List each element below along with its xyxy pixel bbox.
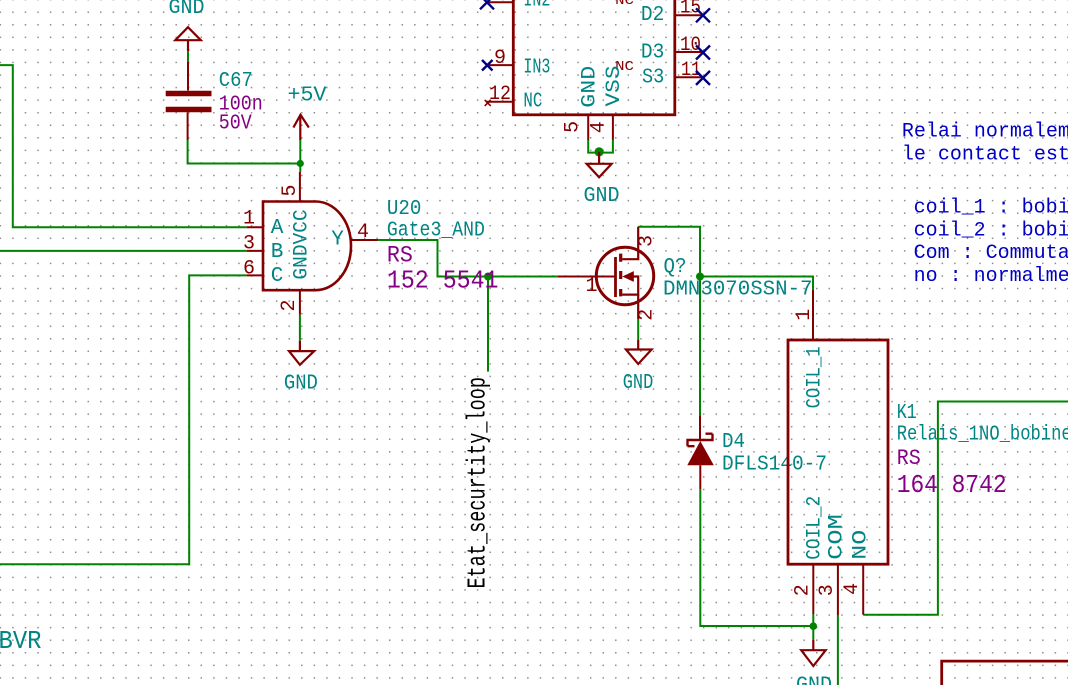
wire label stub xyxy=(487,277,489,372)
pin 4 of U20 output xyxy=(351,239,378,241)
pin 11 of IC xyxy=(675,76,703,78)
wire mosfet drain net xyxy=(638,227,700,416)
svg-text:1: 1 xyxy=(243,208,255,231)
svg-text:U20: U20 xyxy=(387,197,422,221)
svg-text:1: 1 xyxy=(586,275,598,298)
wire C67 to +5V junction xyxy=(188,140,301,164)
svg-text:2: 2 xyxy=(792,584,815,596)
svg-text:4: 4 xyxy=(841,583,864,595)
IC U? box xyxy=(513,0,675,115)
junction node relay pin2 xyxy=(810,622,818,630)
wire +5V to gate pin5 xyxy=(299,140,301,172)
svg-text:Gate3_AND: Gate3_AND xyxy=(387,219,485,243)
svg-text:4: 4 xyxy=(357,221,369,244)
svg-text:C: C xyxy=(271,265,284,288)
svg-text:A: A xyxy=(271,217,284,240)
svg-text:D2: D2 xyxy=(641,3,664,27)
svg-text:50V: 50V xyxy=(219,113,252,136)
wire mosfet source to gnd xyxy=(637,319,639,340)
svg-text:VSS: VSS xyxy=(603,66,626,107)
junction node label stub xyxy=(484,273,492,281)
svg-text:NO: NO xyxy=(850,530,873,560)
svg-text:164 8742: 164 8742 xyxy=(897,470,1007,500)
svg-text:Etat_securtity_loop: Etat_securtity_loop xyxy=(463,377,493,589)
svg-text:+5V: +5V xyxy=(288,85,327,108)
svg-text:S3: S3 xyxy=(642,65,664,89)
svg-text:9: 9 xyxy=(494,47,506,70)
pin 2 of U20 xyxy=(299,290,301,315)
no-connect X pin9 xyxy=(482,60,493,71)
svg-text:Com : Commutateur: Com : Commutateur xyxy=(914,242,1068,265)
op-amp U20 AND gate body xyxy=(263,202,351,291)
svg-text:coil_1 : bobine: coil_1 : bobine xyxy=(914,197,1068,220)
svg-text:4: 4 xyxy=(588,121,611,133)
junction node drain/coil xyxy=(696,273,704,281)
pin 1 of K1 xyxy=(812,290,814,340)
svg-text:1: 1 xyxy=(793,309,816,321)
no-connect x pin12 xyxy=(485,100,491,106)
svg-text:2: 2 xyxy=(278,299,301,311)
wire gnd to C67 xyxy=(187,51,189,62)
pin 4 of IC bottom xyxy=(612,115,614,140)
svg-text:Y: Y xyxy=(331,228,344,251)
diode D4 triangle xyxy=(687,441,714,465)
svg-text:coil_2 : bobine: coil_2 : bobine xyxy=(914,220,1068,243)
svg-text:B: B xyxy=(271,241,284,264)
capacitor C67 xyxy=(166,62,212,140)
ground symbol under IC xyxy=(587,152,612,177)
svg-text:BVR: BVR xyxy=(0,626,42,656)
svg-text:GND: GND xyxy=(623,372,654,395)
svg-text:D3: D3 xyxy=(641,40,664,64)
svg-text:12: 12 xyxy=(489,83,511,106)
svg-text:NC: NC xyxy=(523,90,542,114)
box bottom right xyxy=(942,661,1068,685)
junction node C67/+5V xyxy=(297,160,304,167)
svg-text:GND: GND xyxy=(169,0,205,20)
pin 1 of U20 xyxy=(247,226,263,228)
no-connect X IN2 xyxy=(480,0,494,9)
svg-text:3: 3 xyxy=(636,235,659,247)
wire gate pin2 to gnd xyxy=(299,315,301,341)
wire pin3 net left xyxy=(0,250,247,252)
wire D4 bottom to relay pin2 xyxy=(700,489,813,626)
wire pin6 net left xyxy=(0,275,247,564)
diode D4 xyxy=(688,415,713,489)
svg-text:3: 3 xyxy=(816,584,839,596)
svg-text:NC: NC xyxy=(615,0,634,9)
svg-text:GNDVCC: GNDVCC xyxy=(291,209,314,279)
no-connect X pin11 xyxy=(696,71,710,85)
pin 3 of K1 xyxy=(837,564,839,615)
svg-text:5: 5 xyxy=(279,184,302,196)
wire relay pin4 net right xyxy=(863,402,1068,615)
svg-text:6: 6 xyxy=(243,258,255,281)
wire relay pin2 to gnd xyxy=(812,614,814,640)
pin 3 of U20 xyxy=(247,250,263,252)
no-connect X pin15 xyxy=(696,8,710,22)
transistor Q? mosfet xyxy=(558,227,654,319)
svg-text:DFLS140-7: DFLS140-7 xyxy=(722,453,827,476)
pin 5 of U20 xyxy=(299,172,301,202)
svg-text:le contact est ferme qua: le contact est ferme qua xyxy=(902,144,1068,167)
svg-text:DMN3070SSN-7: DMN3070SSN-7 xyxy=(663,279,813,302)
svg-text:GND: GND xyxy=(584,185,620,208)
pin 5 of IC bottom xyxy=(587,115,589,140)
svg-text:GND: GND xyxy=(579,66,602,108)
ground symbol under Q? xyxy=(626,340,652,364)
svg-text:3: 3 xyxy=(243,233,255,256)
svg-text:IN3: IN3 xyxy=(523,56,550,80)
svg-text:10: 10 xyxy=(680,34,701,57)
arrow inside Q? xyxy=(622,271,634,282)
wire pin1 net left xyxy=(0,65,247,227)
svg-text:COM: COM xyxy=(826,514,849,560)
power symbol +5V xyxy=(293,115,308,140)
svg-text:Q?: Q? xyxy=(664,256,687,279)
pin 2 of K1 xyxy=(812,564,814,614)
ground symbol under U20 xyxy=(289,341,314,365)
svg-text:2: 2 xyxy=(636,309,659,321)
pin 9 of IC xyxy=(486,64,513,66)
pin 12 of IC xyxy=(486,101,513,103)
svg-text:COIL_1: COIL_1 xyxy=(803,346,826,408)
wire coil feed xyxy=(700,277,813,290)
svg-text:IN2: IN2 xyxy=(523,0,550,13)
pin IN2 of IC xyxy=(486,1,513,3)
svg-text:D4: D4 xyxy=(722,431,745,454)
svg-text:no : normalment ouvert: no : normalment ouvert xyxy=(914,265,1068,288)
svg-text:Relai normalement ouvert: Relai normalement ouvert xyxy=(902,121,1068,144)
wire gate output net xyxy=(378,240,559,277)
svg-text:C67: C67 xyxy=(219,70,253,93)
no-connect X pin10 xyxy=(696,46,710,60)
svg-text:RS: RS xyxy=(897,446,921,471)
wire relay pin3 down xyxy=(837,616,839,685)
svg-text:Relais_1NO_bobine: Relais_1NO_bobine xyxy=(897,423,1068,447)
svg-text:K1: K1 xyxy=(897,401,917,425)
svg-text:GND: GND xyxy=(796,675,832,685)
pin 10 of IC xyxy=(675,51,703,53)
ground symbol under K1 xyxy=(801,640,826,666)
pin 6 of U20 xyxy=(247,274,263,276)
pin 15 of IC xyxy=(675,14,703,16)
svg-text:152 5541: 152 5541 xyxy=(387,266,499,296)
wire IC gnd net xyxy=(588,140,613,153)
junction node IC gnd xyxy=(595,147,604,156)
svg-text:11: 11 xyxy=(681,59,701,82)
pin 4 of K1 xyxy=(862,564,864,615)
relay K1 box xyxy=(788,340,888,564)
svg-text:COIL_2: COIL_2 xyxy=(804,496,827,560)
power symbol GND top-left xyxy=(175,27,201,51)
svg-text:5: 5 xyxy=(562,121,585,133)
svg-text:GND: GND xyxy=(284,372,318,395)
